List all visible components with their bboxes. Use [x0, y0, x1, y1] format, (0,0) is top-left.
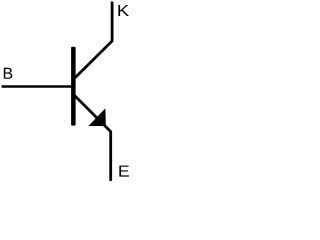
wire base lead [2, 85, 74, 88]
wire emitter lead [74, 95, 111, 180]
emitter arrowhead of transistor Q1 [88, 108, 106, 126]
wire collector lead [74, 3, 112, 79]
label E [119, 166, 129, 177]
label B [4, 68, 13, 79]
label K [118, 5, 129, 16]
base bar of transistor Q1 [71, 47, 76, 126]
